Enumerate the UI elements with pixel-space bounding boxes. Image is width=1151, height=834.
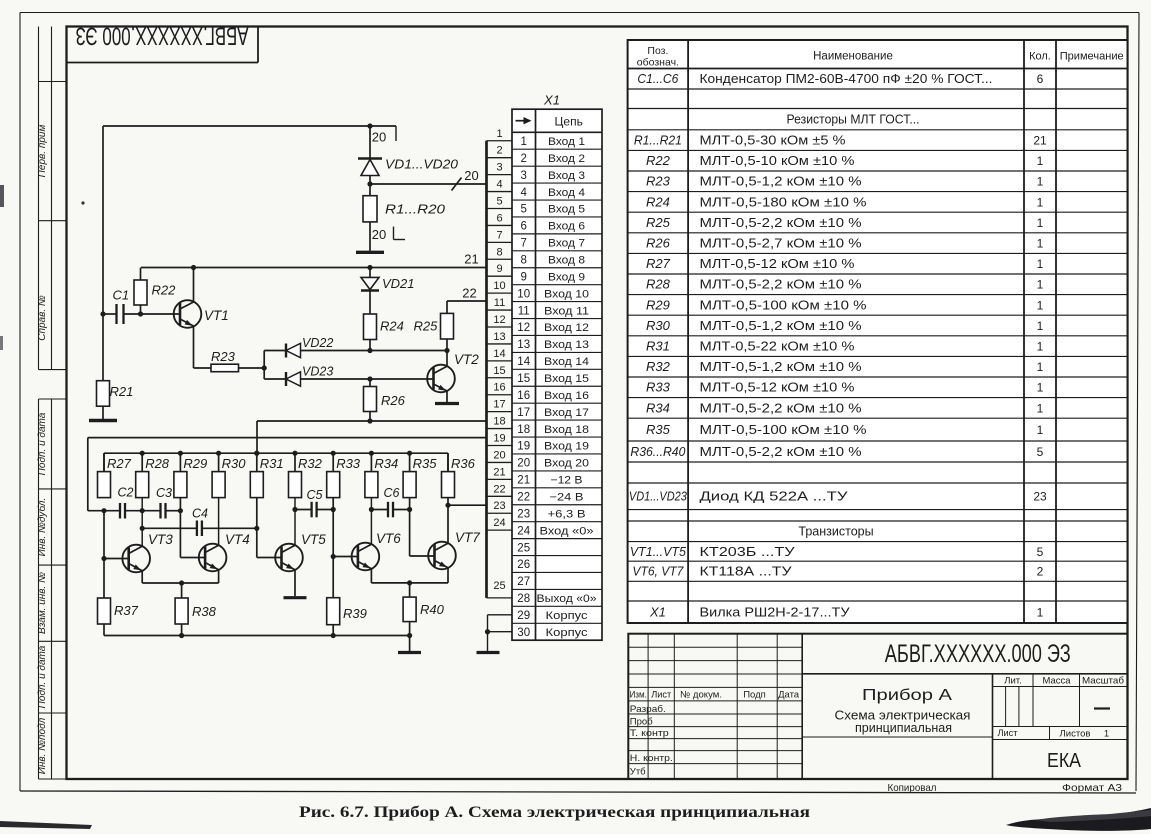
svg-text:20: 20 xyxy=(493,449,505,461)
svg-text:Дата: Дата xyxy=(778,690,800,701)
X1 pin 14 xyxy=(517,356,589,368)
svg-text:14: 14 xyxy=(493,348,505,360)
svg-text:1: 1 xyxy=(1104,728,1109,739)
svg-text:1: 1 xyxy=(1037,154,1044,168)
svg-text:R23: R23 xyxy=(646,174,671,189)
label R28 xyxy=(145,456,170,471)
branch number 23 xyxy=(493,500,505,512)
wire 22 (to X1 pin 11) xyxy=(447,301,487,313)
svg-text:9: 9 xyxy=(496,263,502,275)
branch number 10 xyxy=(493,280,505,292)
svg-text:5: 5 xyxy=(1037,445,1044,459)
svg-text:VT2: VT2 xyxy=(454,352,479,367)
label VT5 xyxy=(301,532,326,547)
X1 pin 16 xyxy=(517,390,589,402)
label R40 xyxy=(420,602,445,617)
X1 pin 6 xyxy=(520,221,585,233)
svg-text:Утб: Утб xyxy=(630,766,646,777)
branch number 16 xyxy=(493,382,505,394)
svg-text:2: 2 xyxy=(520,153,526,165)
branch number 14 xyxy=(493,348,505,360)
svg-text:Вход 3: Вход 3 xyxy=(548,170,585,182)
svg-text:VT6: VT6 xyxy=(376,531,401,546)
svg-text:Листов: Листов xyxy=(1060,728,1091,739)
wire number 21 xyxy=(464,252,478,267)
svg-text:Кол.: Кол. xyxy=(1029,51,1051,63)
X1 header arrow and Цепь xyxy=(516,114,583,128)
resistor R23 xyxy=(194,364,265,372)
branch number 12 xyxy=(493,314,505,326)
resistor R24 xyxy=(364,314,377,351)
svg-text:VD22: VD22 xyxy=(302,336,333,350)
svg-text:Транзисторы: Транзисторы xyxy=(798,525,873,539)
diode VD21 xyxy=(361,268,379,315)
svg-text:1: 1 xyxy=(1037,216,1044,230)
svg-text:Вход 18: Вход 18 xyxy=(544,424,589,436)
diode VD22 xyxy=(264,343,449,357)
resistor R26 xyxy=(364,379,377,421)
wire: R32 lead to VT5 collector xyxy=(294,498,296,546)
svg-text:1: 1 xyxy=(520,136,526,148)
resistor R30 xyxy=(212,453,225,497)
branch number 15 xyxy=(493,365,505,377)
resistor R39 xyxy=(327,598,340,636)
branch wire 16 to pin 16 xyxy=(487,394,513,396)
svg-text:X1: X1 xyxy=(649,604,666,619)
label VT2 xyxy=(454,352,479,367)
branch wire 12 to pin 12 xyxy=(487,326,513,328)
label VT1 xyxy=(204,308,229,323)
svg-text:−24 В: −24 В xyxy=(550,491,584,503)
svg-text:29: 29 xyxy=(517,610,530,622)
svg-text:C3: C3 xyxy=(156,486,172,500)
svg-text:VT1...VT5: VT1...VT5 xyxy=(630,544,687,559)
branch wire 21 to pin 21 xyxy=(487,478,513,480)
X1 pin 26 xyxy=(517,559,530,571)
svg-text:2: 2 xyxy=(1037,565,1044,579)
svg-text:25: 25 xyxy=(517,542,530,554)
svg-text:Изм.: Изм. xyxy=(629,690,647,701)
branch label 20 (bottom) xyxy=(372,227,405,242)
svg-text:5: 5 xyxy=(520,204,526,216)
label VD21 xyxy=(382,276,415,291)
svg-text:11: 11 xyxy=(518,305,530,317)
branch wire 7 to pin 7 xyxy=(487,241,513,243)
margin label: Инв. №подл xyxy=(37,717,48,774)
resistor R32 xyxy=(289,453,302,497)
svg-text:Копировал: Копировал xyxy=(888,782,937,794)
X1 pin 24 xyxy=(517,525,593,537)
svg-text:R29: R29 xyxy=(646,297,670,312)
svg-text:1: 1 xyxy=(1037,175,1044,189)
svg-text:X1: X1 xyxy=(543,93,560,108)
svg-text:Разраб.: Разраб. xyxy=(630,704,666,715)
branch number 18 xyxy=(493,416,505,428)
label C1 xyxy=(113,288,130,303)
svg-text:МЛТ-0,5-12 кОм ±10 %: МЛТ-0,5-12 кОм ±10 % xyxy=(700,381,855,395)
svg-text:R28: R28 xyxy=(646,277,671,292)
X1 pin 10 xyxy=(517,288,589,300)
svg-text:Лит.: Лит. xyxy=(1004,676,1021,687)
svg-text:R34: R34 xyxy=(374,456,398,471)
label R22 xyxy=(152,283,177,298)
X1 pin 20 xyxy=(517,458,589,470)
label R33 xyxy=(336,456,361,471)
branch wire 4 to pin 4 xyxy=(487,191,513,193)
svg-text:R38: R38 xyxy=(192,604,217,619)
svg-text:20: 20 xyxy=(517,458,530,470)
scan artifact blob xyxy=(1006,808,1151,831)
svg-text:13: 13 xyxy=(493,331,505,343)
resistor R34 xyxy=(365,453,378,497)
svg-text:МЛТ-0,5-2,7 кОм ±10 %: МЛТ-0,5-2,7 кОм ±10 % xyxy=(700,237,862,251)
svg-text:обознач.: обознач. xyxy=(637,57,679,69)
branch wire 1 to pin 1 xyxy=(487,140,513,142)
svg-text:Н. контр.: Н. контр. xyxy=(630,753,673,764)
svg-text:МЛТ-0,5-22 кОм ±10 %: МЛТ-0,5-22 кОм ±10 % xyxy=(700,340,855,354)
svg-text:Масштаб: Масштаб xyxy=(1082,676,1125,687)
svg-text:Проб: Проб xyxy=(630,717,653,728)
wires X1 pins 29,30 to ground xyxy=(485,615,512,651)
label C5 xyxy=(307,488,323,502)
svg-text:16: 16 xyxy=(517,390,530,402)
branch number 4 xyxy=(496,179,502,191)
svg-text:22: 22 xyxy=(462,286,476,301)
svg-text:15: 15 xyxy=(517,373,530,385)
branch number 1 xyxy=(496,128,502,140)
svg-text:Подп: Подп xyxy=(743,690,766,701)
transistor VT5 xyxy=(275,544,303,597)
svg-text:C5: C5 xyxy=(307,488,323,502)
svg-text:1: 1 xyxy=(1037,340,1044,354)
label R36 xyxy=(451,456,476,471)
branch wire 11 to pin 11 xyxy=(487,309,513,311)
X1 pin 29 xyxy=(517,610,588,622)
svg-text:Справ. №: Справ. № xyxy=(37,295,48,341)
svg-text:R32: R32 xyxy=(646,359,671,374)
parts list table frame xyxy=(628,40,1128,623)
below-frame notes xyxy=(888,782,1123,794)
svg-text:Взам. инв. №: Взам. инв. № xyxy=(37,572,48,634)
svg-text:Вход 10: Вход 10 xyxy=(544,288,589,300)
svg-text:R30: R30 xyxy=(646,318,671,333)
transistor VT3 xyxy=(101,511,150,598)
wire: +6.3V rail (top of R27...R36) xyxy=(104,451,448,472)
resistor R21 xyxy=(97,381,110,420)
svg-text:Поз.: Поз. xyxy=(647,45,668,57)
svg-text:Корпус: Корпус xyxy=(546,627,589,639)
label C6 xyxy=(384,486,400,500)
ground for X1 pins 29,30 xyxy=(477,651,500,654)
X1 pin 1 xyxy=(520,136,585,148)
label VT3 xyxy=(148,532,173,547)
branch wire 24 to pin 24 xyxy=(487,529,513,531)
svg-text:23: 23 xyxy=(1033,490,1047,504)
branch wire 18 to pin 18 xyxy=(487,428,513,430)
svg-text:VT1: VT1 xyxy=(204,308,229,323)
X1 pin 2 xyxy=(520,153,585,165)
svg-text:Примечание: Примечание xyxy=(1060,51,1124,63)
X1 pin 3 xyxy=(520,170,585,182)
svg-text:23: 23 xyxy=(517,508,530,520)
wire: bottom rail xyxy=(104,633,412,638)
svg-text:18: 18 xyxy=(517,424,530,436)
transistor VT7 xyxy=(428,542,456,583)
svg-text:17: 17 xyxy=(493,399,505,411)
branch number 13 xyxy=(493,331,505,343)
branch label 20 (top) xyxy=(372,130,386,145)
svg-text:7: 7 xyxy=(496,229,502,241)
resistor R37 xyxy=(98,598,111,636)
branch wire 3 to pin 3 xyxy=(487,174,513,176)
svg-text:1: 1 xyxy=(1037,195,1044,209)
svg-text:3: 3 xyxy=(520,170,526,182)
wire 21 (-12V rail to X1 pin 9) xyxy=(141,265,487,270)
ground below VT2 xyxy=(435,402,459,405)
left vertical wire (C1/R21 node) xyxy=(102,126,104,381)
svg-text:Вилка РШ2Н-2-17...ТУ: Вилка РШ2Н-2-17...ТУ xyxy=(700,605,850,619)
wire: VT3 collector to VT5 base line (C4 row) xyxy=(140,526,260,531)
svg-text:VT6, VT7: VT6, VT7 xyxy=(632,564,684,579)
wire number 22 xyxy=(462,286,476,301)
label R1...R20 xyxy=(385,202,446,217)
svg-text:6: 6 xyxy=(1037,72,1044,86)
svg-text:R34: R34 xyxy=(646,400,670,415)
capacitor C1 xyxy=(100,304,143,324)
branch wire 9 to pin 9 xyxy=(487,275,513,277)
branch wire 8 to pin 8 xyxy=(487,258,513,260)
svg-text:Наименование: Наименование xyxy=(813,51,893,63)
svg-text:R24: R24 xyxy=(380,319,404,334)
ground below R1...R20 xyxy=(356,251,384,254)
svg-text:Вход 12: Вход 12 xyxy=(544,322,589,334)
svg-text:−12 В: −12 В xyxy=(551,475,583,487)
svg-text:КТ118А ...ТУ: КТ118А ...ТУ xyxy=(700,565,792,579)
svg-text:VD1...VD20: VD1...VD20 xyxy=(385,157,459,172)
svg-text:Вход 5: Вход 5 xyxy=(548,204,585,216)
X1 pin 4 xyxy=(520,187,585,199)
label R24 xyxy=(380,319,404,334)
svg-text:Вход 19: Вход 19 xyxy=(544,441,589,453)
X1 pin 19 xyxy=(517,441,589,453)
X1 pin 28 xyxy=(517,593,596,605)
svg-text:VD1...VD23: VD1...VD23 xyxy=(629,489,688,504)
label R35 xyxy=(413,456,438,471)
resistor R31 xyxy=(250,453,263,497)
svg-text:АБВГ.ХХХХХХ.000 ЭЗ: АБВГ.ХХХХХХ.000 ЭЗ xyxy=(76,21,249,49)
transistor VT6 xyxy=(352,543,380,583)
wire: R28 lead to VT3 collector xyxy=(141,498,143,547)
svg-text:R1...R21: R1...R21 xyxy=(634,133,682,148)
svg-text:4: 4 xyxy=(496,179,502,191)
svg-text:ЕКА: ЕКА xyxy=(1047,750,1082,772)
svg-text:Вход 17: Вход 17 xyxy=(544,407,589,419)
svg-text:R26: R26 xyxy=(381,393,406,408)
label C2 xyxy=(118,486,134,500)
svg-text:11: 11 xyxy=(494,297,505,309)
svg-text:7: 7 xyxy=(520,238,526,250)
branch wire 10 to pin 10 xyxy=(487,292,513,294)
resistor R27 xyxy=(98,453,111,497)
label R31 xyxy=(260,456,284,471)
resistor R29 xyxy=(174,453,187,497)
margin label: Инв. №дубл. xyxy=(36,498,48,557)
branch wire 23 to pin 23 xyxy=(487,512,513,514)
svg-text:Конденсатор ПМ2-60В-4700 пФ ±2: Конденсатор ПМ2-60В-4700 пФ ±20 % ГОСТ..… xyxy=(700,72,993,86)
label C4 xyxy=(192,507,208,521)
svg-text:15: 15 xyxy=(493,365,505,377)
X1 pin 8 xyxy=(520,254,585,266)
label R38 xyxy=(192,604,217,619)
svg-text:МЛТ-0,5-1,2 кОм ±10 %: МЛТ-0,5-1,2 кОм ±10 % xyxy=(700,319,862,333)
resistor R38 xyxy=(175,583,188,636)
svg-text:R30: R30 xyxy=(222,456,247,471)
branch number 17 xyxy=(493,399,505,411)
svg-text:R25: R25 xyxy=(414,319,439,334)
svg-text:R32: R32 xyxy=(298,456,323,471)
svg-text:19: 19 xyxy=(517,441,530,453)
branch number 7 xyxy=(496,229,502,241)
transistor VT4 xyxy=(199,544,227,583)
branch number 3 xyxy=(496,162,502,174)
svg-text:5: 5 xyxy=(1037,545,1044,559)
label R34 xyxy=(374,456,398,471)
svg-text:Вход 14: Вход 14 xyxy=(544,356,589,368)
svg-text:1: 1 xyxy=(1037,298,1044,312)
wire number 20 xyxy=(464,168,478,183)
svg-text:R1...R20: R1...R20 xyxy=(385,202,446,217)
svg-text:МЛТ-0,5-12 кОм ±10 %: МЛТ-0,5-12 кОм ±10 % xyxy=(700,257,855,271)
svg-text:R26: R26 xyxy=(646,236,671,251)
wire 19 (to X1 pin 19) xyxy=(88,438,487,511)
branch number 11 xyxy=(494,297,505,309)
branch wire 15 to pin 15 xyxy=(487,377,513,379)
branch wire 5 to pin 5 xyxy=(487,207,513,209)
svg-text:R22: R22 xyxy=(646,153,671,168)
svg-text:Подп. и дата: Подп. и дата xyxy=(37,645,48,708)
svg-text:МЛТ-0,5-2,2 кОм ±10 %: МЛТ-0,5-2,2 кОм ±10 % xyxy=(700,445,862,459)
svg-text:20: 20 xyxy=(464,168,478,183)
svg-text:Вход 15: Вход 15 xyxy=(544,373,589,385)
branch number 8 xyxy=(496,246,502,258)
svg-text:VT4: VT4 xyxy=(225,532,250,547)
wire: VT6/VT7 emitter line with R40 xyxy=(371,580,448,585)
wire: R33 lead / VT6 base node / R39 xyxy=(331,498,358,598)
svg-text:Вход 13: Вход 13 xyxy=(544,339,589,351)
svg-text:6: 6 xyxy=(520,221,526,233)
svg-text:10: 10 xyxy=(517,288,530,300)
svg-text:АБВГ.ХХХХХХ.000 ЭЗ: АБВГ.ХХХХХХ.000 ЭЗ xyxy=(885,640,1071,668)
svg-text:21: 21 xyxy=(493,466,505,478)
svg-text:23: 23 xyxy=(493,500,505,512)
svg-text:МЛТ-0,5-2,2 кОм ±10 %: МЛТ-0,5-2,2 кОм ±10 % xyxy=(700,216,862,230)
svg-text:27: 27 xyxy=(517,576,530,588)
wire: C5 row (VT5 collector to VT6 base) xyxy=(292,507,335,512)
svg-text:R22: R22 xyxy=(152,283,177,298)
svg-text:R33: R33 xyxy=(646,380,671,395)
label R23 xyxy=(211,349,236,364)
branch number 9 xyxy=(496,263,502,275)
label R25 xyxy=(414,319,439,334)
label VT4 xyxy=(225,532,250,547)
svg-text:17: 17 xyxy=(517,407,530,419)
svg-text:Вход 7: Вход 7 xyxy=(548,238,585,250)
svg-text:Диод КД 522А ...ТУ: Диод КД 522А ...ТУ xyxy=(700,490,848,504)
svg-text:1: 1 xyxy=(1037,401,1044,415)
svg-text:1: 1 xyxy=(1037,237,1044,251)
svg-text:R23: R23 xyxy=(211,349,236,364)
X1 pin 23 xyxy=(517,508,585,520)
svg-text:+6,3 В: +6,3 В xyxy=(548,508,586,520)
svg-text:Инв. №подл: Инв. №подл xyxy=(37,717,48,774)
svg-text:МЛТ-0,5-2,2 кОм ±10 %: МЛТ-0,5-2,2 кОм ±10 % xyxy=(700,278,862,292)
branch number 24 xyxy=(493,517,505,529)
svg-text:Подп. и дата: Подп. и дата xyxy=(37,412,48,475)
resistor R35 xyxy=(403,453,416,497)
svg-text:Вход 20: Вход 20 xyxy=(544,458,589,470)
wire: R30 lead to VT4 collector xyxy=(218,498,220,546)
svg-text:Вход 6: Вход 6 xyxy=(548,221,585,233)
connector X1 table frame xyxy=(512,109,602,640)
svg-text:Рис. 6.7. Прибор А. Схема элек: Рис. 6.7. Прибор А. Схема электрическая … xyxy=(299,804,810,821)
svg-text:1: 1 xyxy=(1037,360,1044,374)
svg-text:6: 6 xyxy=(496,212,502,224)
svg-text:R40: R40 xyxy=(420,602,445,617)
X1 pin 30 xyxy=(517,627,588,639)
svg-text:МЛТ-0,5-1,2 кОм ±10 %: МЛТ-0,5-1,2 кОм ±10 % xyxy=(700,360,862,374)
wire 20 (group of 20 lines to X1) xyxy=(367,178,486,191)
svg-text:принципиальная: принципиальная xyxy=(855,720,952,735)
svg-text:8: 8 xyxy=(520,254,526,266)
svg-text:Масса: Масса xyxy=(1043,676,1072,687)
svg-text:12: 12 xyxy=(517,322,530,334)
wire 23 (R36/VT7 collector to X1 pin 23) xyxy=(445,498,486,543)
wire 18 (to X1 pin 18) xyxy=(257,418,487,453)
svg-text:VT3: VT3 xyxy=(148,532,173,547)
branch number 21 xyxy=(493,466,505,478)
connector X1 label xyxy=(543,93,560,108)
svg-text:VT5: VT5 xyxy=(301,532,326,547)
branch wire 22 to pin 22 xyxy=(487,495,513,497)
branch wire 20 to pin 20 xyxy=(487,461,513,463)
branch wire 17 to pin 17 xyxy=(487,411,513,413)
svg-text:VD23: VD23 xyxy=(302,365,333,379)
X1 pin 5 xyxy=(520,204,585,216)
svg-text:Вход «0»: Вход «0» xyxy=(540,525,594,537)
svg-text:Лист: Лист xyxy=(998,728,1019,739)
svg-text:Выход «0»: Выход «0» xyxy=(537,593,597,605)
capacitor C5 xyxy=(312,502,317,518)
svg-text:1: 1 xyxy=(496,128,502,140)
wire: R31 lead to VT5 base xyxy=(257,498,282,558)
margin label: Взам. инв. № xyxy=(37,572,48,634)
svg-text:R33: R33 xyxy=(336,456,361,471)
margin label: Подп. и дата xyxy=(37,645,48,708)
label R37 xyxy=(114,603,139,618)
ground below R40 xyxy=(398,651,421,654)
svg-text:Т. контр: Т. контр xyxy=(630,728,669,739)
branch wire 14 to pin 14 xyxy=(487,360,513,362)
svg-text:R21: R21 xyxy=(110,384,134,399)
svg-text:9: 9 xyxy=(520,271,526,283)
ground below VT5 xyxy=(284,596,307,599)
svg-text:Вход 4: Вход 4 xyxy=(548,187,585,199)
svg-text:C2: C2 xyxy=(118,486,134,500)
svg-text:Прибор А: Прибор А xyxy=(862,687,952,704)
margin graph column lines xyxy=(39,27,67,780)
branch wire 2 to pin 2 xyxy=(487,157,513,159)
svg-text:26: 26 xyxy=(517,559,530,571)
